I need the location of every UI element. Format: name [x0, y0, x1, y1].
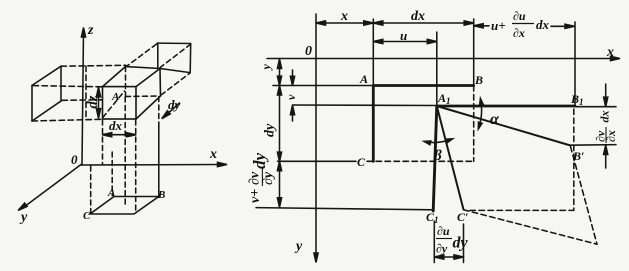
svg-text:C′: C′: [457, 210, 468, 224]
edge AC thick: [372, 86, 375, 162]
x axis (right fig): [267, 58, 616, 60]
svg-text:dx: dx: [109, 118, 123, 133]
svg-text:β: β: [433, 148, 442, 164]
top-right projection box (xz plane): [125, 43, 191, 95]
deformed edge A1B': [437, 106, 571, 146]
svg-text:y: y: [294, 239, 303, 254]
dashed translated square right side: [573, 109, 575, 210]
dashed B'D': [571, 147, 598, 245]
svg-text:v+: v+: [248, 189, 263, 203]
element box at A: [103, 67, 161, 120]
y axis (right fig): [315, 14, 317, 258]
svg-text:dy: dy: [250, 153, 269, 170]
dimension u+du/dx dx (top): [474, 25, 489, 27]
C1 level line: [256, 208, 433, 210]
beta arc: [425, 139, 453, 143]
svg-text:dz: dz: [85, 95, 101, 108]
svg-text:C: C: [83, 210, 91, 222]
A1B1 extension left: [292, 104, 436, 107]
svg-text:B1: B1: [570, 92, 584, 107]
edge A1B1 thick: [437, 105, 575, 108]
dx dimension: [103, 134, 136, 136]
wire AB extension: [273, 85, 373, 87]
svg-text:dy: dy: [453, 235, 469, 252]
dy arrow (left fig): [164, 103, 180, 117]
v dimension arrows: [292, 70, 294, 84]
alpha arc: [479, 99, 482, 129]
svg-text:dx: dx: [536, 17, 550, 32]
svg-text:A: A: [359, 72, 368, 86]
left dimension column: [279, 59, 281, 207]
right dimension dv/dx dx: [605, 84, 607, 105]
y axis (left fig): [22, 165, 81, 209]
svg-text:α: α: [490, 111, 500, 128]
svg-text:B: B: [157, 189, 165, 201]
dz dimension: [98, 88, 100, 118]
edge A1C1 thick: [433, 106, 437, 211]
B' level extension: [571, 144, 617, 147]
svg-text:z: z: [87, 23, 94, 38]
extension verticals: [372, 19, 374, 86]
svg-text:∂x: ∂x: [604, 130, 618, 142]
bottom parallelogram (xy projection) A B C: [90, 197, 159, 215]
svg-text:B′: B′: [572, 149, 584, 163]
dashed translated square bottom: [470, 209, 574, 211]
x axis (left fig): [81, 164, 221, 167]
svg-text:∂u: ∂u: [513, 9, 526, 23]
svg-text:∂y: ∂y: [436, 242, 448, 256]
svg-text:A: A: [111, 91, 119, 103]
edge AB thick: [373, 84, 473, 87]
svg-text:y: y: [259, 64, 273, 72]
dimension x (top): [316, 22, 373, 24]
deformed edge A1C': [437, 106, 464, 210]
svg-text:0: 0: [71, 152, 78, 167]
projection rays to bottom (dashed): [91, 97, 159, 214]
svg-text:dy: dy: [263, 123, 278, 137]
svg-text:u: u: [400, 28, 407, 43]
edge CD dashed: [367, 160, 474, 162]
svg-text:∂u: ∂u: [437, 224, 450, 238]
element box hidden edges (dashed): [103, 67, 159, 118]
label v + dv/dy dy rotated: [248, 153, 277, 204]
svg-text:A1: A1: [437, 91, 451, 106]
svg-text:C: C: [357, 155, 366, 169]
dimension dx (top): [373, 22, 473, 24]
svg-text:x: x: [606, 45, 614, 60]
svg-text:C1: C1: [426, 210, 439, 225]
svg-text:∂x: ∂x: [513, 26, 525, 40]
svg-text:u+: u+: [491, 18, 506, 33]
svg-text:B: B: [474, 73, 483, 87]
svg-text:dy: dy: [168, 97, 181, 112]
label u + du/dx dx: [491, 9, 550, 40]
svg-text:dx: dx: [411, 9, 425, 24]
edge BD dashed: [473, 86, 475, 162]
label du/dy dy bottom: [436, 224, 469, 256]
svg-text:∂y: ∂y: [261, 171, 276, 185]
A1B1 extension right: [575, 106, 616, 108]
projection ray through B, solid part: [158, 127, 160, 197]
dimension u: [373, 41, 437, 43]
svg-text:v: v: [284, 94, 298, 100]
svg-text:A: A: [107, 187, 115, 199]
dashed C'D': [464, 210, 598, 244]
svg-text:y: y: [19, 210, 28, 225]
svg-text:x: x: [340, 9, 348, 24]
left projection box (yz plane): [32, 65, 126, 121]
label dv/dx dx rotated (right): [594, 111, 619, 144]
svg-text:0: 0: [305, 44, 312, 59]
svg-text:dx: dx: [598, 111, 612, 123]
svg-text:x: x: [209, 147, 217, 162]
bottom dimension du/dy dy: [433, 221, 435, 263]
z axis: [82, 30, 84, 165]
C line extension: [278, 160, 357, 162]
